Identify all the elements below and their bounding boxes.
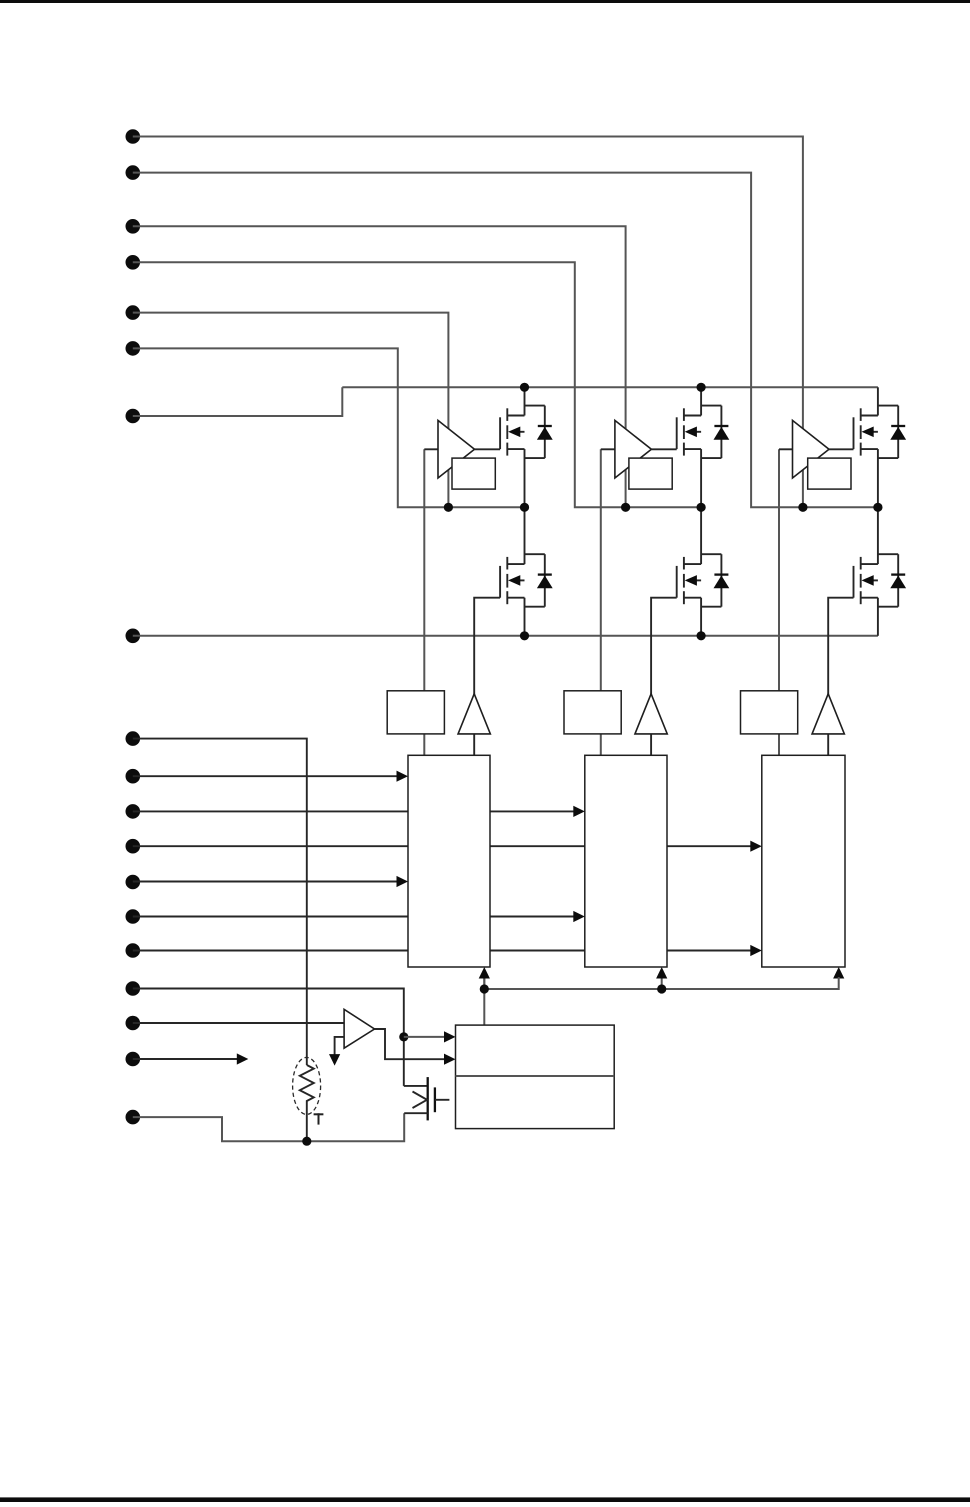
phase3 low-side drain wire (877, 507, 879, 564)
Q5 (phase3 high-side) body contact with arrow (873, 431, 878, 433)
Q3 (phase2 high-side) channel (683, 408, 685, 421)
Q2 (phase1 low-side) body diode (525, 553, 545, 555)
Q1 (phase1 high-side) source stub (507, 448, 524, 450)
arrow enable into protection box (444, 1031, 456, 1042)
high-side gate driver U1 (438, 420, 475, 478)
Q6 (phase3 low-side) channel (860, 557, 862, 570)
terminal RT (126, 1110, 141, 1125)
node: phase2 output (697, 503, 706, 512)
terminal IN6 (126, 341, 141, 356)
level shifter box phase 3 (741, 691, 798, 734)
terminal TEST (126, 1052, 141, 1067)
high-side driver U2 output wire (651, 448, 676, 450)
wire control input row 1 into logic block 1 (133, 775, 397, 777)
node: phase1 driver return (444, 503, 453, 512)
feedback arrow into block1 (479, 967, 490, 979)
arrow row4 into block1 (397, 876, 409, 887)
terminal C4 (126, 875, 141, 890)
Q4 (phase2 low-side) source stub (684, 597, 701, 599)
phase3 high-side drain wire (877, 387, 879, 415)
wire control row 4 into logic block 1 (133, 881, 397, 883)
node: phase1 source on ground rail (520, 631, 529, 640)
arrow row2 into block2 (573, 806, 585, 817)
bootstrap box phase 1 (452, 458, 495, 489)
terminal C2 (126, 804, 141, 819)
test arrowhead (237, 1053, 249, 1064)
phase2 high-side drain wire (700, 387, 702, 415)
terminal C3 (126, 839, 141, 854)
Q2 (phase1 low-side) gate bar (499, 566, 501, 598)
high-side driver U3 output wire (829, 448, 854, 450)
level shifter box phase 1 (387, 691, 444, 734)
phase3 low-side source wire to ground rail (877, 598, 879, 636)
wire terminal4 to phase2 row (133, 262, 701, 507)
comparator reference input with down arrow (335, 1037, 345, 1055)
commutation logic block 1 (408, 755, 490, 967)
terminal CT (126, 731, 141, 746)
terminal IN3 (126, 219, 141, 234)
high-side gate driver U3 (793, 420, 830, 478)
level shifter box phase 2 (564, 691, 621, 734)
node: enable/protection junction (399, 1032, 408, 1041)
Q4 (phase2 low-side) gate bar (676, 566, 678, 598)
Q3 (phase2 high-side) gate bar (676, 417, 678, 449)
Q6 (phase3 low-side) source stub (861, 597, 878, 599)
node: phase2 source on ground rail (697, 631, 706, 640)
test terminal arrow wire (133, 1058, 237, 1060)
node: feedback to block2 (657, 984, 666, 993)
output stage logic block 3 (762, 755, 845, 967)
node: phase1 drain on top rail (520, 383, 529, 392)
node: phase2 driver return (621, 503, 630, 512)
Q4 (phase2 low-side) drain stub (684, 563, 701, 565)
phase3 low-side gate wire (828, 598, 853, 756)
Q3 (phase2 high-side) source stub (684, 448, 701, 450)
wire control row 5 through block1 to block2 (133, 916, 574, 918)
Q2 (phase1 low-side) source stub (507, 597, 524, 599)
terminal C6 (126, 943, 141, 958)
terminal GND-rail (126, 629, 141, 644)
page top border bar (0, 0, 970, 3)
wire EN terminal down to protection node (133, 989, 404, 1086)
comparator output wire (375, 1029, 445, 1059)
terminal COMP-IN (126, 1016, 141, 1031)
phase3 level-shift to driver wire (778, 449, 780, 755)
bootstrap box phase 3 (808, 458, 851, 489)
Q3 (phase2 high-side) body contact with arrow (696, 431, 701, 433)
wire control row 6 through blocks to block3 (133, 950, 751, 952)
Q1 (phase1 high-side) body contact with arrow (520, 431, 525, 433)
terminal VM (126, 409, 141, 424)
Q5 (phase3 high-side) drain stub (861, 415, 878, 417)
Q5 (phase3 high-side) channel (860, 408, 862, 421)
arrow row3 into block3 (750, 841, 762, 852)
arrow row5 into block2 (573, 911, 585, 922)
thermistor label T (314, 1113, 324, 1115)
top supply rail (342, 386, 878, 388)
terminal IN5 (126, 305, 141, 320)
Q6 (phase3 low-side) drain stub (861, 563, 878, 565)
wire terminal3 to phase2 node (133, 226, 626, 507)
phase1 high-side source wire to phase node (524, 449, 526, 507)
Q4 (phase2 low-side) body diode (701, 553, 721, 555)
phase2 low-side source wire to ground rail (700, 598, 702, 636)
feedback arrow into block3 (833, 967, 844, 979)
Q4 (phase2 low-side) channel (683, 557, 685, 570)
phase2 low-side gate wire (651, 598, 677, 756)
phase3 high-side source wire to phase node (877, 449, 879, 507)
node: phase3 output (873, 503, 882, 512)
Q2 (phase1 low-side) channel (506, 557, 508, 570)
terminal C1 (126, 769, 141, 784)
Q1 (phase1 high-side) body diode (525, 405, 545, 407)
low-side gate buffer phase 1 (458, 694, 490, 734)
wire terminal5 to phase1 node (133, 313, 449, 508)
Q5 (phase3 high-side) body diode (878, 405, 898, 407)
terminal IN4 (126, 255, 141, 270)
phase2 driver input lead (601, 448, 615, 450)
wire protection node to box (404, 1036, 444, 1038)
wire control row 3 through blocks to block3 (133, 845, 751, 847)
node: feedback to block1 (480, 984, 489, 993)
low-side gate buffer phase 2 (635, 694, 667, 734)
feedback arrow into block2 (656, 967, 667, 979)
gate control block 2 (585, 755, 667, 967)
phase2 low-side drain wire (700, 507, 702, 564)
Q1 (phase1 high-side) gate bar (499, 417, 501, 449)
phase2 high-side source wire to phase node (700, 449, 702, 507)
Q2 (phase1 low-side) drain stub (507, 563, 524, 565)
wire terminal2 to phase3 row (133, 173, 878, 508)
thermal-sense transistor Q7 (404, 1085, 428, 1087)
node: phase1 output (520, 503, 529, 512)
arrow row1 into block1 (397, 771, 409, 782)
phase1 high-side drain wire (524, 387, 526, 415)
Q1 (phase1 high-side) drain stub (507, 415, 524, 417)
thermistor dashed ellipse (293, 1057, 321, 1114)
comparator U7 (344, 1009, 374, 1048)
wire control row 2 through block1 to block2 (133, 810, 574, 812)
wire terminal6 to phase1 row (133, 348, 525, 507)
terminal IN1 (126, 129, 141, 144)
wire VM terminal to top supply rail (133, 387, 342, 416)
arrow comparator output into protection box (444, 1054, 456, 1065)
Q6 (phase3 low-side) body diode (878, 553, 898, 555)
Q5 (phase3 high-side) gate bar (853, 417, 855, 449)
protection block divider (456, 1075, 615, 1077)
phase1 low-side drain wire (524, 507, 526, 564)
Q6 (phase3 low-side) body contact with arrow (873, 579, 878, 581)
phase1 driver input lead (424, 448, 438, 450)
Q6 (phase3 low-side) gate bar (853, 566, 855, 598)
high-side gate driver U2 (615, 420, 652, 478)
terminal C5 (126, 909, 141, 924)
wire RT terminal to thermal node (133, 1113, 404, 1141)
feedback line from protection to logic blocks (483, 975, 485, 1025)
low-side gate buffer phase 3 (812, 694, 844, 734)
node: thermal sense bottom (302, 1137, 311, 1146)
Q4 (phase2 low-side) body contact with arrow (696, 579, 701, 581)
Q5 (phase3 high-side) source stub (861, 448, 878, 450)
wire CT terminal to thermistor (133, 739, 307, 1065)
wire comparator input (133, 1022, 344, 1024)
node: phase2 drain on top rail (697, 383, 706, 392)
bootstrap box phase 2 (629, 458, 672, 489)
node: phase3 driver return (798, 503, 807, 512)
arrow row6 into block3 (750, 945, 762, 956)
thermistor RT zigzag (300, 1065, 314, 1141)
bottom ground rail (133, 635, 878, 637)
phase1 level-shift to driver wire (423, 449, 425, 755)
terminal IN2 (126, 165, 141, 180)
Q2 (phase1 low-side) body contact with arrow (520, 579, 525, 581)
protection block (TSD / UVLO) (456, 1025, 615, 1129)
wire terminal1 to phase3 node (133, 137, 803, 508)
Q3 (phase2 high-side) body diode (701, 405, 721, 407)
phase1 low-side gate wire (474, 598, 500, 756)
phase3 driver input lead (779, 448, 793, 450)
phase2 level-shift to driver wire (600, 449, 602, 755)
page bottom border line (0, 1497, 970, 1502)
Q1 (phase1 high-side) channel (506, 408, 508, 421)
phase1 low-side source wire to ground rail (524, 598, 526, 636)
high-side driver U1 output wire (475, 448, 501, 450)
Q3 (phase2 high-side) drain stub (684, 415, 701, 417)
terminal EN (126, 981, 141, 996)
